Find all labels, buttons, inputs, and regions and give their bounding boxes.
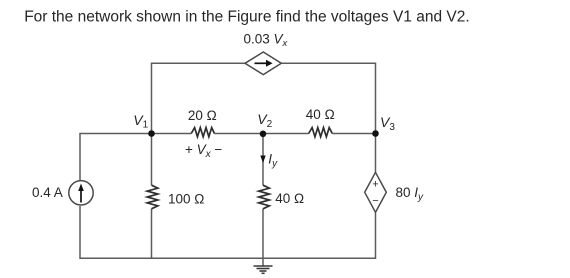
svg-text:40 Ω: 40 Ω <box>275 191 304 206</box>
svg-text:0.4 A: 0.4 A <box>32 185 63 200</box>
svg-text:V2: V2 <box>257 111 272 130</box>
svg-text:100 Ω: 100 Ω <box>168 192 204 207</box>
svg-text:Iy: Iy <box>268 152 278 170</box>
svg-text:40 Ω: 40 Ω <box>306 107 335 122</box>
svg-text:V3: V3 <box>380 114 395 133</box>
svg-text:20 Ω: 20 Ω <box>188 108 217 123</box>
svg-text:0.03 Vx: 0.03 Vx <box>244 32 289 50</box>
svg-text:−: − <box>372 195 378 207</box>
svg-text:+ Vx −: + Vx − <box>185 142 222 160</box>
svg-text:V1: V1 <box>133 112 148 131</box>
svg-text:For the network shown in the F: For the network shown in the Figure find… <box>24 8 469 25</box>
svg-text:+: + <box>372 179 378 191</box>
svg-text:80 Iy: 80 Iy <box>396 185 425 203</box>
